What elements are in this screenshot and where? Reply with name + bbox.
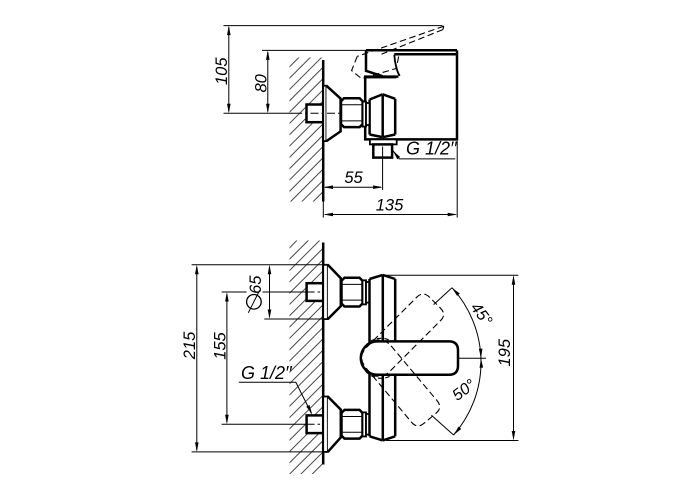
lower inlet stub (front view) bbox=[307, 415, 324, 433]
dimension 155 bbox=[226, 294, 228, 422]
faucet body (top view) bbox=[365, 50, 457, 139]
svg-text:65: 65 bbox=[247, 275, 265, 294]
dimension dia 65 bbox=[269, 267, 271, 317]
upper hex nut (front view) bbox=[342, 278, 363, 307]
wall hatch (top view) bbox=[290, 58, 324, 202]
dimension 55 bbox=[325, 186, 381, 188]
lever top plate (top view) bbox=[366, 50, 457, 54]
dimension 80 bbox=[267, 52, 269, 112]
dimension 215 bbox=[196, 267, 198, 450]
lever reference line to arc bbox=[458, 357, 486, 359]
dimension 195 bbox=[513, 277, 515, 439]
wall hatch (front view) bbox=[290, 241, 324, 475]
upper washer (front view) bbox=[363, 280, 367, 304]
svg-text:155: 155 bbox=[211, 331, 229, 359]
lower hex nut (front view) bbox=[342, 410, 363, 439]
outlet pipe G1/2 (top view) bbox=[373, 144, 392, 157]
upper escutcheon cone (front view) bbox=[328, 265, 341, 319]
lever hub circle (front view) bbox=[361, 338, 401, 378]
lever base (top view) bbox=[366, 50, 383, 76]
svg-text:G 1/2′′: G 1/2′′ bbox=[406, 139, 457, 159]
lever phantom rotated 50 down (front view) bbox=[355, 333, 443, 429]
escutcheon cone (top view) bbox=[326, 86, 340, 141]
hex nut (top view) bbox=[341, 98, 363, 127]
leader G 1/2 (front view) bbox=[239, 382, 312, 413]
wall face line (top view) bbox=[322, 60, 325, 202]
swing arc dimension bbox=[452, 288, 481, 435]
raised lever phantom (top view) bbox=[352, 26, 444, 78]
svg-text:55: 55 bbox=[344, 169, 363, 187]
lever phantom rotated 45 up (front view) bbox=[354, 291, 446, 383]
inlet pipe stub (top view) bbox=[307, 105, 324, 123]
lower washer (front view) bbox=[363, 412, 367, 436]
lower escutcheon plate (front view) bbox=[323, 397, 328, 452]
leader G 1/2 (top view) bbox=[393, 151, 455, 159]
upper inlet centerline + 155 top extension bbox=[222, 291, 247, 293]
svg-text:195: 195 bbox=[496, 338, 514, 366]
svg-text:45°: 45° bbox=[467, 300, 495, 330]
dimension 135 bbox=[325, 214, 456, 216]
svg-text:G 1/2′′: G 1/2′′ bbox=[241, 363, 292, 383]
upper inlet stub (front view) bbox=[307, 283, 324, 301]
upper escutcheon plate (front view) bbox=[323, 265, 328, 319]
body bar (front view) bbox=[370, 275, 396, 441]
svg-text:50°: 50° bbox=[449, 376, 479, 404]
svg-text:80: 80 bbox=[253, 73, 271, 92]
svg-text:105: 105 bbox=[213, 57, 231, 85]
union washer (top view) bbox=[363, 102, 366, 127]
inlet centerline (top view) bbox=[224, 112, 295, 114]
lower inlet centerline + 155 bottom extension bbox=[222, 423, 307, 425]
arc end radial 50 bbox=[431, 415, 453, 435]
escutcheon back plate (top view) bbox=[323, 86, 326, 141]
svg-text:135: 135 bbox=[376, 197, 404, 215]
svg-text:215: 215 bbox=[181, 331, 199, 360]
wall face line (front view) bbox=[322, 243, 325, 465]
lever handle solid (front view) bbox=[361, 341, 458, 374]
outlet flange (top view) bbox=[370, 139, 397, 144]
arc end radial 45 bbox=[434, 288, 452, 305]
dimension 105 bbox=[228, 27, 230, 112]
body hex boss (top view) bbox=[370, 94, 396, 137]
lower escutcheon cone (front view) bbox=[328, 397, 341, 452]
